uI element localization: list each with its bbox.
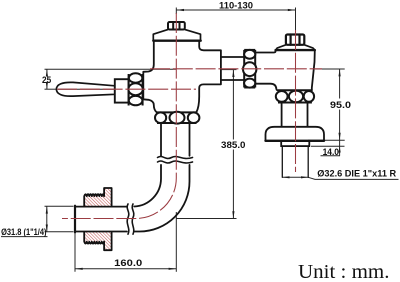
svg-text:25: 25	[42, 75, 52, 86]
svg-text:110-130: 110-130	[219, 0, 253, 11]
svg-text:Unit : mm.: Unit : mm.	[298, 261, 390, 282]
svg-text:Ø32.6 DIE 1"x11 R: Ø32.6 DIE 1"x11 R	[317, 168, 396, 179]
svg-text:385.0: 385.0	[221, 140, 246, 151]
svg-text:160.0: 160.0	[114, 258, 142, 269]
svg-text:Ø31.8 (1"1/4): Ø31.8 (1"1/4)	[1, 227, 46, 238]
svg-text:14.0: 14.0	[323, 147, 339, 158]
svg-text:95.0: 95.0	[330, 100, 351, 111]
